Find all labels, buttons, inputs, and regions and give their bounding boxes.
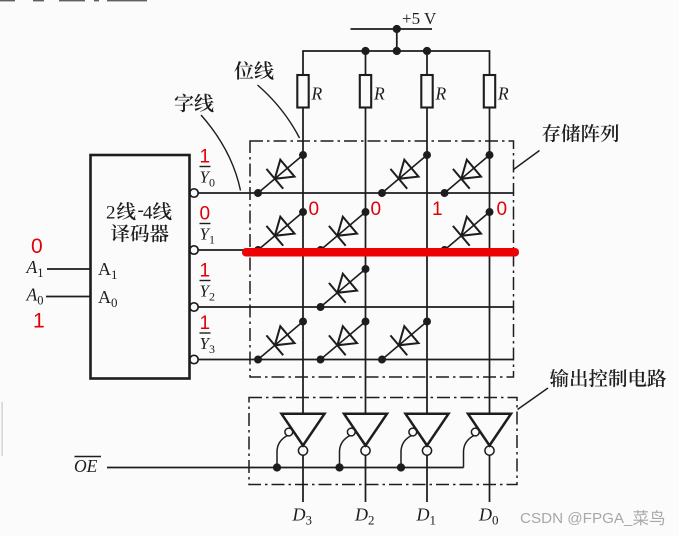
svg-text:4: 4 [143, 203, 153, 224]
bit line D0 vertical [489, 108, 491, 414]
svg-text:1: 1 [200, 261, 211, 282]
leader 存储阵列 to array box [514, 151, 540, 170]
decoder title line2 译码器 [111, 224, 130, 242]
svg-text:0: 0 [371, 199, 382, 220]
svg-text:OE: OE [74, 456, 98, 476]
wire OE horizontal [107, 467, 464, 469]
bit line D1 vertical [426, 108, 428, 414]
decoder output bubble Y2 [190, 303, 198, 311]
scan artifact top edge [0, 0, 147, 1]
svg-text:0: 0 [497, 199, 508, 220]
tri-state buffer G3 (bit D1) [406, 414, 449, 446]
bit line D2 vertical [365, 108, 367, 414]
decoder output bubble Y1 [190, 246, 198, 254]
svg-text:Y1: Y1 [200, 225, 215, 247]
junction dot bus/R3 [423, 47, 431, 55]
wire supply bus [302, 50, 490, 52]
enable tail G1 [277, 436, 288, 468]
junction dot OE/G3 [397, 463, 405, 471]
scan artifact left edge [2, 402, 3, 456]
diode row Y3 bit D2 [309, 309, 377, 372]
output wire D2 [365, 455, 367, 502]
diode row Y1 bit D3 [247, 199, 315, 262]
svg-text:0: 0 [31, 235, 43, 258]
decoder output bubble Y3 [190, 355, 198, 363]
junction dot on supply bus [393, 47, 401, 55]
decoder output bubble Y0 [190, 189, 198, 197]
svg-text:D0: D0 [478, 505, 499, 528]
wire bus to resistor R3 [426, 51, 428, 75]
resistor R3 [421, 75, 432, 108]
svg-text:D1: D1 [416, 505, 437, 528]
label 存储阵列 (storage array) [542, 124, 560, 142]
output control dash-dot box [249, 398, 517, 485]
wire input A0 [46, 296, 91, 298]
svg-text:R: R [373, 84, 385, 104]
label 位线 (bit line) [234, 61, 253, 80]
svg-text:Y2: Y2 [200, 282, 215, 304]
svg-text:Y0: Y0 [200, 168, 215, 190]
tri-state buffer G2 (bit D2) [344, 414, 387, 446]
resistor R1 [297, 75, 308, 108]
diode row Y3 bit D3 [247, 309, 315, 372]
red highlight bar on word line Y1 [242, 248, 519, 257]
word line Y2 [198, 306, 513, 308]
leader 字线 to word line Y0 [201, 115, 241, 191]
junction dot +5V stub [393, 25, 401, 33]
svg-text:0: 0 [309, 199, 320, 220]
wire bus to resistor R4 [489, 51, 491, 75]
svg-text:Y3: Y3 [200, 334, 215, 356]
tri-state buffer G4 (bit D0) [468, 414, 511, 446]
diode row Y3 bit D1 [371, 309, 439, 372]
enable tail G3 [401, 436, 412, 468]
svg-text:R: R [435, 84, 447, 104]
wire +5V vertical [396, 29, 398, 51]
svg-text:CSDN @FPGA_: CSDN @FPGA_ [520, 510, 633, 527]
svg-text:R: R [311, 84, 323, 104]
storage array dash-dot box [250, 141, 514, 377]
wire input A1 [47, 268, 91, 270]
diode row Y1 bit D0 [433, 199, 501, 262]
tri-state buffer G1 (bit D3) [282, 414, 325, 446]
wire bus to resistor R2 [365, 51, 367, 75]
diode row Y1 bit D2 [309, 199, 377, 262]
word line Y3 [198, 359, 513, 361]
diode row Y0 bit D1 [371, 142, 439, 205]
svg-text:2: 2 [106, 203, 116, 224]
decoder box U1 (2线-4线 译码器) [91, 155, 190, 379]
diode row Y0 bit D3 [247, 142, 315, 205]
junction dot OE/G1 [273, 463, 281, 471]
enable tail G4 (from OE line end) [464, 436, 475, 468]
word line Y1 [198, 249, 513, 251]
diode row Y0 bit D0 [433, 142, 501, 205]
resistor R4 [484, 75, 495, 108]
svg-text:1: 1 [432, 199, 443, 220]
enable tail G2 [340, 436, 351, 468]
svg-text:1: 1 [200, 147, 211, 168]
svg-text:0: 0 [200, 204, 211, 225]
svg-text:A1: A1 [98, 259, 118, 282]
output wire D3 [302, 455, 304, 502]
word line Y0 [198, 192, 513, 194]
leader 位线 to bit line D3 [258, 85, 300, 138]
svg-text:A0: A0 [98, 287, 118, 310]
svg-text:1: 1 [200, 313, 211, 334]
wire bus to resistor R1 [302, 51, 304, 75]
svg-text:D3: D3 [292, 505, 313, 528]
svg-text:A0: A0 [26, 285, 44, 308]
svg-text:+5 V: +5 V [402, 9, 437, 28]
resistor R2 [360, 75, 371, 108]
junction dot bus/R2 [361, 47, 369, 55]
bit line D3 vertical [302, 108, 304, 414]
svg-text:1: 1 [33, 310, 45, 333]
junction dot OE/G2 [335, 463, 343, 471]
svg-text:R: R [497, 84, 509, 104]
output wire D0 [489, 455, 491, 502]
svg-text:D2: D2 [354, 505, 375, 528]
output wire D1 [426, 455, 428, 502]
leader 输出控制电路 to output box [518, 388, 549, 410]
label 字线 (word line) [175, 94, 194, 113]
label 输出控制电路 (output control circuit) [550, 369, 569, 387]
svg-text:A1: A1 [26, 257, 44, 280]
diode row Y2 bit D2 [309, 256, 377, 319]
wire +5V stub [351, 28, 433, 30]
